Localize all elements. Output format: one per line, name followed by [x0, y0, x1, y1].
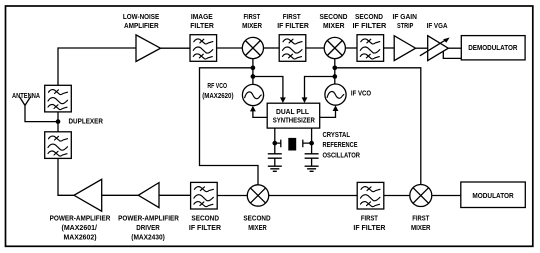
svg-text:SECOND: SECOND	[320, 12, 349, 21]
wire IF gain strip to IF VGA	[416, 47, 428, 49]
svg-text:SECOND: SECOND	[191, 213, 219, 222]
svg-text:RF VCO: RF VCO	[207, 81, 227, 90]
label POWER-AMPLIFIER (MAX2601/ MAX2602)	[50, 213, 111, 241]
wire LNA to image filter	[161, 47, 191, 49]
label DUAL PLL SYNTHESIZER	[273, 107, 316, 125]
label IMAGE FILTER	[190, 12, 214, 30]
junction dot first mixer LO	[251, 65, 256, 70]
wire PLL to crystal right	[311, 128, 313, 153]
svg-text:SECOND: SECOND	[355, 12, 384, 21]
junction dot RF VCO to PLL feed	[251, 74, 256, 79]
junction dot antenna/duplexer	[56, 119, 61, 124]
svg-text:SECOND: SECOND	[243, 213, 271, 222]
svg-text:SYNTHESIZER: SYNTHESIZER	[273, 116, 316, 125]
wire second IF filter to IF gain strip	[384, 47, 395, 49]
label FIRST IF FILTER	[277, 12, 309, 30]
svg-text:AMPLIFIER: AMPLIFIER	[124, 21, 159, 30]
svg-text:ANTENNA: ANTENNA	[12, 91, 41, 100]
svg-text:CRYSTAL: CRYSTAL	[323, 130, 351, 139]
label FIRST MIXER (TX)	[411, 213, 431, 232]
junction dot IF VCO to PLL feed	[332, 74, 337, 79]
svg-text:MAX2602): MAX2602)	[64, 233, 98, 242]
wire second mixer down to IF VCO	[334, 59, 336, 85]
svg-text:FIRST: FIRST	[412, 213, 429, 222]
capacitor left	[268, 154, 282, 166]
label RF VCO (MAX2620)	[202, 81, 234, 100]
svg-text:IF FILTER: IF FILTER	[353, 21, 387, 30]
svg-text:FIRST: FIRST	[244, 12, 261, 21]
IF VGA gain-control arrow	[420, 38, 450, 56]
first mixer (RX)	[242, 37, 263, 58]
wire PLL to crystal left	[274, 128, 276, 153]
second IF filter (RX)	[357, 35, 384, 62]
svg-text:IF GAIN: IF GAIN	[393, 12, 418, 21]
svg-text:IF VCO: IF VCO	[351, 88, 371, 97]
svg-text:FIRST: FIRST	[283, 12, 301, 21]
junction dot crystal right	[309, 141, 314, 146]
label FIRST MIXER	[242, 12, 262, 30]
junction dot second mixer LO	[332, 65, 337, 70]
label FIRST IF FILTER (TX)	[353, 213, 386, 232]
wire duplexer to power amplifier	[58, 158, 74, 195]
svg-text:FIRST: FIRST	[361, 213, 378, 222]
svg-text:LOW-NOISE: LOW-NOISE	[123, 12, 159, 21]
wire duplexer upper-lower	[57, 112, 59, 132]
power amplifier (MAX2601/MAX2602)	[74, 179, 102, 211]
wire image filter to first mixer	[217, 47, 243, 49]
svg-text:IMAGE: IMAGE	[191, 12, 213, 21]
svg-text:IF FILTER: IF FILTER	[353, 223, 386, 232]
label SECOND MIXER (TX)	[243, 213, 271, 232]
svg-text:STRIP: STRIP	[397, 21, 413, 30]
wire first IF filter TX to first mixer TX	[384, 195, 410, 197]
svg-text:DEMODULATOR: DEMODULATOR	[468, 43, 518, 52]
ground left	[268, 166, 282, 171]
wire first IF filter to second mixer	[306, 47, 324, 49]
duplexer filter (lower)	[45, 132, 72, 159]
dual PLL synthesizer box	[267, 103, 320, 128]
RF VCO (MAX2620)	[242, 84, 263, 105]
label SECOND IF FILTER (TX)	[189, 213, 222, 232]
second mixer (TX)	[247, 185, 268, 206]
IF VGA amplifier	[428, 36, 449, 61]
wire first mixer TX to modulator	[432, 195, 461, 197]
svg-text:DUPLEXER: DUPLEXER	[69, 117, 104, 126]
power-amplifier driver (MAX2430)	[138, 183, 159, 208]
label LOW-NOISE AMPLIFIER	[123, 12, 159, 30]
wire power amplifier to driver	[102, 194, 139, 196]
wire first mixer down to RF VCO	[252, 59, 254, 85]
second mixer (RX)	[324, 37, 345, 58]
low-noise amplifier	[136, 35, 161, 62]
svg-text:MIXER: MIXER	[248, 223, 267, 232]
svg-text:MODULATOR: MODULATOR	[472, 191, 514, 200]
IF gain strip amplifier	[394, 36, 415, 61]
image filter	[190, 35, 217, 62]
junction dot crystal left	[272, 141, 277, 146]
svg-text:(MAX2430): (MAX2430)	[131, 233, 165, 242]
wire RF VCO feed into PLL	[253, 77, 286, 104]
label POWER-AMPLIFIER DRIVER (MAX2430)	[118, 213, 179, 241]
wire LO path to TX second mixer	[200, 68, 259, 185]
wire IF VCO feed into PLL	[302, 77, 335, 104]
wire driver to second IF filter TX	[159, 194, 191, 196]
wire PLL to IF VCO with up arrow	[320, 105, 339, 117]
svg-text:(MAX2601/: (MAX2601/	[62, 223, 98, 232]
wire first mixer to first IF filter	[264, 47, 280, 49]
ground right	[305, 166, 319, 171]
wire PLL to RF VCO with up arrow	[250, 106, 267, 118]
duplexer filter (upper)	[45, 85, 72, 112]
wire second mixer TX to first IF filter TX	[269, 195, 358, 197]
label SECOND MIXER	[320, 12, 349, 30]
wire duplexer to LNA	[58, 48, 136, 85]
svg-text:MIXER: MIXER	[411, 223, 431, 232]
svg-text:FILTER: FILTER	[190, 21, 214, 30]
capacitor right	[305, 154, 319, 166]
antenna	[20, 97, 58, 122]
svg-text:POWER-AMPLIFIER: POWER-AMPLIFIER	[118, 213, 179, 222]
svg-text:POWER-AMPLIFIER: POWER-AMPLIFIER	[50, 213, 111, 222]
svg-text:DRIVER: DRIVER	[136, 223, 160, 232]
svg-text:(MAX2620): (MAX2620)	[202, 91, 234, 100]
IF VCO	[325, 84, 346, 105]
svg-text:IF FILTER: IF FILTER	[189, 223, 222, 232]
first IF filter (TX)	[357, 182, 384, 209]
modulator box	[461, 182, 526, 208]
wire IF VGA lower connection to demodulator	[443, 51, 461, 58]
wire second IF filter TX to second mixer TX	[217, 195, 247, 197]
svg-text:IF FILTER: IF FILTER	[277, 21, 309, 30]
crystal X1	[275, 138, 312, 151]
svg-text:IF VGA: IF VGA	[427, 21, 448, 30]
first IF filter (RX)	[279, 35, 306, 62]
svg-text:OSCILLATOR: OSCILLATOR	[323, 150, 361, 159]
wire second mixer to second IF filter	[345, 47, 357, 49]
label CRYSTAL REFERENCE OSCILLATOR	[323, 130, 361, 159]
svg-text:REFERENCE: REFERENCE	[323, 140, 358, 149]
wire LO path to TX first mixer	[335, 68, 421, 185]
svg-text:MIXER: MIXER	[242, 21, 262, 30]
first mixer (TX)	[410, 185, 432, 207]
wire IF VGA to demodulator	[448, 47, 461, 49]
second IF filter (TX)	[191, 182, 218, 209]
svg-text:MIXER: MIXER	[323, 21, 345, 30]
demodulator box	[461, 36, 525, 60]
label IF GAIN STRIP	[393, 12, 418, 30]
label SECOND IF FILTER	[353, 12, 387, 30]
